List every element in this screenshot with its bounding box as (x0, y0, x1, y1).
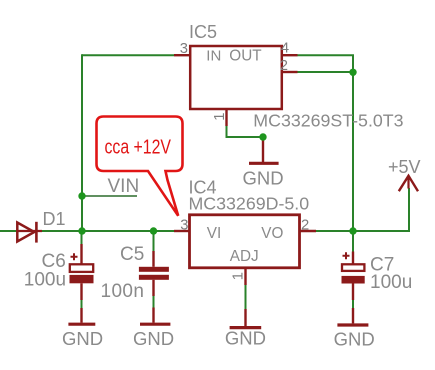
wire: C7 top connection (352, 231, 354, 253)
wire: IC5 pin2 net (297, 71, 353, 73)
svg-text:IC5: IC5 (189, 22, 217, 42)
svg-text:GND: GND (242, 167, 283, 188)
IC5 pin 4 stub (282, 54, 298, 56)
svg-text:100u: 100u (370, 272, 412, 293)
svg-text:100n: 100n (101, 281, 145, 302)
ground symbol under C5 (140, 308, 170, 325)
svg-text:IN: IN (206, 47, 221, 64)
svg-text:MC33269ST-5.0T3: MC33269ST-5.0T3 (253, 111, 403, 131)
svg-text:VI: VI (207, 225, 221, 242)
capacitor C7 (polarized) (342, 252, 365, 301)
wire: IC5 pin1 elbow to GND (227, 124, 264, 137)
svg-text:D1: D1 (43, 209, 66, 229)
wire: C7 bottom to GND (352, 284, 354, 308)
svg-text:cca +12V: cca +12V (105, 136, 172, 158)
+5V supply symbol arrow (399, 176, 418, 191)
svg-text:100u: 100u (24, 269, 66, 290)
svg-text:2: 2 (301, 218, 309, 234)
wire: C5 bottom to GND (153, 280, 155, 308)
wire: C5 top connection (153, 231, 155, 253)
op-amp/regulator IC5 box (190, 46, 282, 109)
svg-text:GND: GND (133, 328, 174, 349)
svg-text:3: 3 (180, 41, 188, 57)
svg-text:GND: GND (334, 329, 375, 350)
svg-text:C5: C5 (120, 244, 144, 265)
ground symbol under C7 (337, 308, 368, 325)
svg-text:4: 4 (281, 41, 289, 57)
IC5 pin 3 stub (174, 54, 190, 56)
svg-text:VO: VO (261, 225, 283, 242)
svg-text:GND: GND (225, 328, 266, 349)
svg-text:+5V: +5V (388, 157, 421, 177)
svg-text:ADJ: ADJ (230, 248, 259, 265)
junction dot at VIN stub (78, 192, 85, 199)
svg-text:1: 1 (231, 272, 247, 280)
wire: C6 bottom to GND (81, 284, 83, 308)
svg-text:MC33269D-5.0: MC33269D-5.0 (189, 193, 310, 213)
junction dot at IC5 outputs (349, 69, 356, 76)
wire: VIN label stub (82, 195, 137, 197)
capacitor C6 (polarized) (70, 244, 94, 300)
ground symbol under IC4 (230, 309, 262, 328)
IC4 pin 3 stub (174, 230, 190, 232)
ground symbol under C6 (68, 308, 95, 324)
wire: IC4 pin1 to GND (245, 283, 247, 311)
ground symbol under IC5 (249, 137, 279, 163)
regulator IC4 box (190, 215, 300, 268)
junction dot at C5 (150, 227, 157, 234)
svg-text:OUT: OUT (229, 47, 261, 64)
wire: IC5 pin4 net with right vertical (297, 55, 353, 231)
wire: C6 top connection (81, 231, 83, 246)
IC4 pin 2 stub (300, 230, 317, 232)
capacitor C5 (139, 251, 169, 296)
svg-text:GND: GND (62, 328, 103, 349)
junction dot at C7 (349, 227, 356, 234)
wire: net from IC5 pin3 horizontal top (82, 54, 174, 56)
junction dot left on main net (78, 227, 85, 234)
svg-text:VIN: VIN (108, 176, 140, 197)
diode D1 (17, 222, 42, 243)
junction dot at IC5 GND (259, 133, 266, 140)
IC4 pin 1 stub (244, 268, 246, 285)
svg-text:1: 1 (212, 112, 228, 120)
IC5 pin 2 stub (282, 71, 298, 73)
wire: IC4 pin2 output net to +5V riser (316, 188, 409, 231)
svg-text:2: 2 (280, 58, 288, 74)
IC5 pin 1 stub (225, 109, 227, 126)
wire: main horizontal net at y=231 (0, 230, 174, 232)
wire: left vertical VIN net (81, 54, 83, 231)
callout bubble cca +12V (97, 117, 183, 216)
svg-text:3: 3 (180, 218, 188, 234)
